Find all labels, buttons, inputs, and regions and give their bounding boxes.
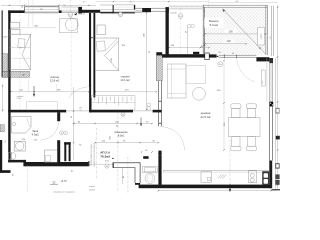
faint line bedroom1 a: [27, 0, 29, 27]
window sill inner line bedroom1: [25, 13, 60, 15]
vestibule stub east bar: [69, 142, 71, 161]
NE corner living room: [256, 57, 269, 61]
west wall hatched section: [2, 54, 8, 77]
bedroom1 nightstand: [9, 30, 20, 35]
svg-text:конденз: конденз: [260, 33, 262, 39]
grid bubble mid top: [118, 12, 122, 16]
double wall west leaf: [89, 13, 91, 97]
bathroom door swing arc: [40, 122, 58, 141]
neighbor wall horizontal: [0, 170, 11, 173]
sofa body: [167, 64, 186, 98]
wall stub to corridor wall: [89, 97, 91, 112]
stove dark unit: [262, 171, 269, 185]
ceiling height annotation niche: [166, 12, 169, 15]
B bubble on wall: [121, 112, 125, 116]
balcony parapet inner top: [203, 6, 267, 8]
east wall kitchen segment: [269, 161, 272, 189]
sofa armrest line: [167, 68, 186, 70]
bedroom1 cabinet upper: [10, 22, 19, 28]
wc toilet bowl: [145, 173, 155, 184]
svg-text:325: 325: [40, 9, 43, 11]
svg-text:290: 290: [229, 30, 234, 33]
window W1 bedroom1: [25, 7, 60, 12]
svg-text:190: 190: [79, 108, 82, 110]
svg-text:50: 50: [185, 31, 187, 33]
bed 1 pillow: [18, 38, 25, 47]
neighbor bottom wall: [272, 189, 281, 190]
dining table: [228, 118, 260, 137]
vestibule stub west bar: [64, 142, 66, 161]
grid bubbles: [68, 12, 73, 17]
balcony dim 190: [223, 40, 235, 43]
bed2 fold second diagonal: [106, 39, 117, 51]
grid line bedroom1 desk: [71, 12, 73, 95]
faint line bedroom1 b: [32, 0, 34, 27]
svg-text:помещение: помещение: [114, 131, 128, 134]
neighbor blocks: [276, 108, 280, 114]
svg-text:20: 20: [72, 170, 74, 172]
svg-text:15: 15: [4, 37, 6, 39]
dining chairs: [231, 104, 241, 109]
svg-text:Балкон: Балкон: [209, 19, 219, 23]
wall below living door: [158, 151, 161, 156]
svg-text:190: 190: [227, 40, 232, 43]
toilet bedroom side: [9, 152, 12, 160]
wall top-left segment: [8, 10, 24, 13]
pier box: [205, 53, 209, 60]
bed 1 outline: [9, 34, 30, 69]
bed 1 second line: [12, 57, 30, 59]
svg-text:8.0м2: 8.0м2: [118, 134, 125, 137]
grid line axis left top: [19, 0, 21, 110]
balcony AC unit: [258, 27, 265, 45]
wall top bedroom2 left part: [82, 10, 100, 13]
tv cabinet east wall: [262, 70, 266, 86]
corridor top wall west segment: [8, 110, 66, 113]
balcony hatch floor: [204, 7, 266, 54]
grid line kitchen: [229, 140, 231, 184]
svg-text:325: 325: [83, 1, 86, 3]
svg-text:тх=2.60: тх=2.60: [78, 14, 84, 16]
corridor south wall thick: [25, 162, 88, 166]
mullion: [113, 5, 114, 13]
bottom junction diamond: [229, 186, 231, 187]
svg-text:ел.т.: ел.т.: [262, 80, 264, 84]
balcony left wall hatch ticks: [203, 10, 205, 12]
svg-text:спалня: спалня: [121, 76, 130, 79]
svg-text:3.2м2: 3.2м2: [17, 98, 22, 100]
junction diamond corridor wall b: [159, 111, 161, 112]
sofa back line: [171, 64, 173, 98]
small bubble a: [147, 103, 151, 107]
bedroom1 desk: [60, 19, 78, 33]
shaft outer L wall: [113, 163, 141, 183]
bedroom1 door leaf: [89, 86, 91, 97]
svg-text:обшивка от ламарина: обшивка от ламарина: [53, 191, 75, 193]
hatched wall stub below bed: [2, 71, 30, 77]
bedroom1 low closet outline: [27, 102, 58, 110]
NE corner bedroom2: [166, 7, 169, 12]
junction diamond entry: [112, 158, 114, 159]
balcony right parapet outer: [265, 5, 267, 55]
balcony slope diagonal: [223, 9, 266, 54]
svg-text:95: 95: [13, 174, 15, 176]
svg-text:260: 260: [129, 1, 132, 3]
bedroom2 nightstand: [97, 25, 105, 35]
balcony parapet outer top: [203, 4, 267, 6]
balcony door swing arc: [237, 59, 255, 82]
corridor top wall mid segment: [89, 110, 133, 113]
junction tick mid wall: [110, 111, 112, 112]
balcony left wall inner: [204, 7, 206, 54]
terrace dashed line: [26, 165, 28, 193]
wc east wall: [158, 155, 161, 185]
corridor vertical dim line x73.7: [73, 87, 75, 160]
right dim line: [277, 5, 279, 190]
balcony left wall outer: [202, 5, 204, 54]
junction diamond corridor wall a: [159, 101, 161, 102]
shaft inner L wall: [113, 168, 135, 183]
bathroom east wall upper: [57, 112, 60, 121]
window cap: [134, 5, 135, 10]
bedroom2 wardrobe band: [92, 96, 135, 110]
south wall main: [139, 185, 272, 189]
wc top wall stub: [143, 156, 148, 159]
bathroom east wall lower: [57, 140, 60, 162]
balcony dim 290: [225, 29, 237, 33]
east wall top segment: [269, 58, 273, 63]
east wall duct blocks: [269, 102, 273, 107]
svg-text:к: к: [65, 133, 66, 135]
svg-text:дневна: дневна: [201, 111, 211, 115]
south wall wc join: [135, 183, 140, 185]
bedroom1 upper dim line: [11, 27, 57, 29]
vod bubble: [105, 164, 109, 168]
south wall step block: [23, 160, 26, 166]
svg-text:15: 15: [219, 52, 221, 54]
window W1 mid line: [25, 8, 60, 10]
bed 2 fold zigzag: [105, 41, 119, 70]
dishwasher square: [201, 172, 212, 182]
right wall top strip a: [271, 6, 273, 56]
pilaster bump: [193, 52, 199, 54]
bathroom south wall: [8, 160, 25, 163]
entry threshold line: [88, 163, 112, 165]
svg-text:50: 50: [149, 51, 151, 53]
svg-text:25: 25: [5, 140, 7, 142]
svg-text:тх=2.35: тх=2.35: [170, 12, 176, 14]
section arrow bedroom1: [33, 86, 35, 97]
corridor dim chain y142.6: [95, 142, 158, 144]
niche vertical dim: [187, 26, 189, 54]
bedroom2 entry arrow: [140, 118, 142, 127]
living room door swing arc: [161, 126, 185, 150]
top dim line: [1, 4, 96, 6]
sofa armrest line 2: [167, 92, 186, 94]
window W4: [135, 7, 142, 9]
neighbor strip line: [274, 58, 276, 190]
junction diamond corridor wall c: [159, 123, 161, 124]
bed 2 outline: [95, 38, 118, 71]
bedroom1 door threshold: [66, 110, 89, 112]
bedroom1 interior dim chain: [11, 91, 89, 93]
svg-text:+5.70: +5.70: [60, 180, 67, 183]
washing machine: [45, 150, 58, 162]
hatched concrete column: [156, 52, 162, 55]
window W2 sill wall: [100, 12, 135, 14]
parapet dotted band extension: [169, 5, 203, 7]
thin wall line under band: [62, 11, 79, 13]
left dim line: [2, 84, 4, 112]
svg-text:гардероб: гардероб: [17, 96, 24, 98]
inner face line living east: [266, 58, 268, 102]
window W5: [151, 7, 166, 9]
neighbor hatch block left: [0, 125, 4, 132]
bedroom1 door swing arc: [69, 87, 90, 98]
washbasin: [14, 141, 25, 151]
bed 1 fold zigzag: [22, 34, 30, 69]
frame jamb a: [223, 54, 225, 58]
bubble below wall: [218, 62, 223, 67]
svg-text:ВОД.: ВОД.: [105, 161, 109, 163]
balcony label backing: [205, 18, 224, 28]
top dim line 2: [96, 1, 208, 3]
svg-text:76.3м2: 76.3м2: [100, 155, 110, 159]
corridor east wall east face: [160, 81, 162, 126]
svg-text:5.3 м2: 5.3 м2: [210, 23, 219, 27]
window W2 bedroom2: [100, 4, 112, 6]
rug / chaise: [186, 65, 206, 83]
bedroom2 east wall: [166, 7, 169, 57]
dim extension a: [27, 80, 29, 92]
wall east of pier: [209, 54, 216, 57]
top dim line balcony: [208, 2, 278, 4]
pier top right: [142, 8, 151, 12]
svg-text:12: 12: [80, 110, 82, 112]
vestibule stub top bar: [64, 142, 71, 144]
bottom dim line: [158, 190, 280, 192]
grid line balcony left: [208, 0, 210, 8]
sink unit: [248, 171, 256, 183]
junction tick bathroom wall: [24, 111, 26, 112]
drainboard marks: [218, 174, 222, 178]
svg-text:660: 660: [236, 1, 239, 3]
dotted band W3: [114, 4, 135, 6]
ceiling height annotation bedroom1: [74, 13, 77, 16]
balcony right parapet inner: [266, 5, 268, 55]
dotted lintel band bedroom1: [62, 6, 79, 8]
right wall top strip b: [273, 6, 275, 56]
north niche dim line 140/40: [169, 47, 209, 49]
kitchen counter edge lines: [164, 169, 270, 171]
junction diamond double wall: [91, 37, 93, 38]
svg-text:АП 2.А: АП 2.А: [100, 151, 111, 155]
double wall east leaf: [93, 13, 95, 97]
west wall bathroom: [8, 112, 10, 162]
svg-text:13: 13: [270, 37, 272, 39]
wall jamb right of W1: [59, 10, 62, 13]
svg-text:спалня: спалня: [50, 76, 59, 79]
bedroom2 interior dim chain: [95, 91, 156, 93]
dim extension b: [56, 84, 58, 92]
living dim chain vertical x224: [223, 60, 225, 150]
bottom section arrow: [229, 184, 231, 192]
level flag +5: [50, 183, 58, 185]
frame jamb b: [235, 55, 237, 58]
east wall hatched middle: [269, 63, 272, 102]
junction diamond balcony door: [216, 56, 218, 57]
grid line through bubble 14: [69, 0, 71, 21]
small bubble b: [147, 107, 151, 111]
pier between bedrooms top: [78, 7, 82, 13]
west wall bedroom1: [8, 10, 10, 112]
bed 1 blanket line: [9, 47, 30, 49]
svg-text:90: 90: [232, 53, 234, 55]
grid line shaft: [117, 112, 119, 193]
shower drain: [13, 122, 16, 125]
svg-text:тераса: тераса: [89, 186, 96, 188]
balcony window-door frame: [219, 54, 257, 56]
living north wall west part: [162, 54, 207, 57]
neighbor wall vertical: [0, 140, 2, 173]
coffee table round: [193, 87, 206, 100]
corridor dim chain y123.5: [74, 123, 152, 125]
shower tray: [12, 117, 32, 134]
wc toilet tank: [143, 167, 158, 173]
corridor east wall west face: [157, 81, 159, 126]
bedroom2 door threshold: [133, 110, 153, 112]
grid line through bubble 15: [180, 8, 182, 54]
bedroom1 round chair: [65, 18, 78, 31]
bed 2 pillow: [96, 41, 105, 51]
entry jamb west: [88, 161, 89, 166]
east wall lower double lines: [269, 106, 271, 160]
grid line vestibule: [96, 128, 98, 180]
bedroom2 height dim line 400: [146, 13, 148, 110]
west facade outer line: [2, 10, 3, 77]
svg-text:21.5 м2: 21.5 м2: [200, 115, 210, 119]
corridor top wall east segment: [153, 110, 162, 113]
grid line entry: [127, 157, 129, 193]
vik bubbles corridor left: [60, 131, 64, 135]
shaft west cap: [113, 163, 114, 168]
svg-text:16.3м2: 16.3м2: [89, 190, 96, 192]
